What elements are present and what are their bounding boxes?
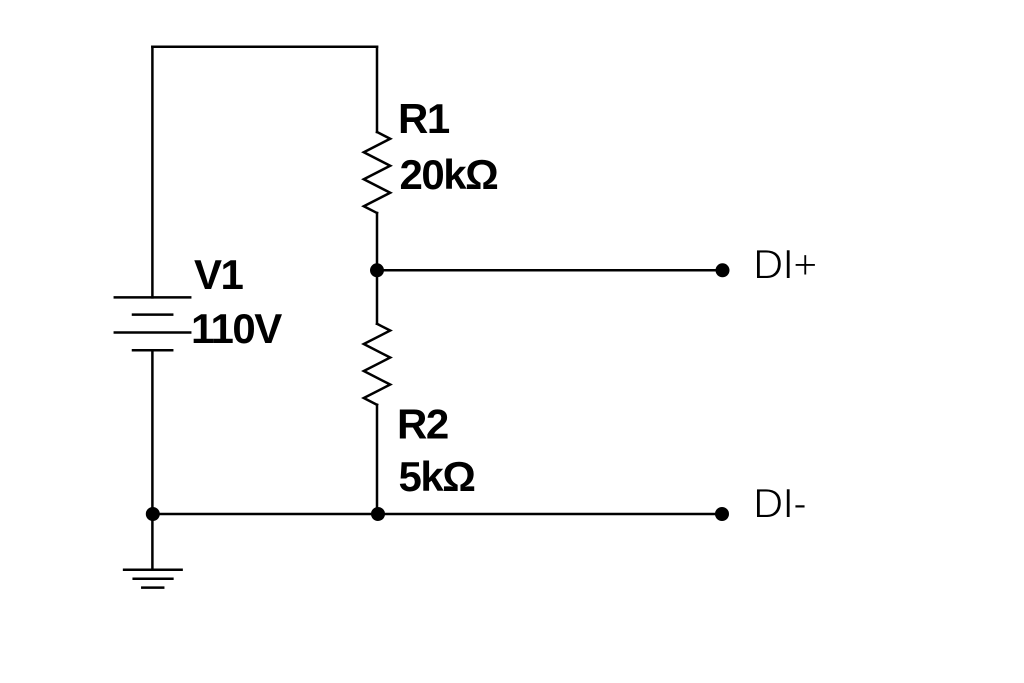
battery V1 lower long plate xyxy=(115,331,190,334)
wire left vertical upper (top wire to battery V1 top plate) xyxy=(151,47,154,298)
resistor R1 zigzag xyxy=(364,132,390,213)
junction bottom left xyxy=(146,507,160,521)
wire left vertical lower (battery V1 bottom plate to bottom wire) xyxy=(151,350,154,514)
svg-text:DI+: DI+ xyxy=(753,241,817,288)
junction bottom middle xyxy=(371,507,385,521)
wire ground stem xyxy=(151,514,154,570)
svg-text:110V: 110V xyxy=(191,305,282,352)
wire right vertical upper (top wire to R1) xyxy=(376,47,379,132)
svg-text:DI-: DI- xyxy=(753,480,806,527)
svg-text:R2: R2 xyxy=(397,401,448,448)
wire middle vertical (R1 bottom through node A to R2 top) xyxy=(376,213,379,324)
wire bottom horizontal xyxy=(152,513,722,516)
svg-text:V1: V1 xyxy=(194,251,244,298)
battery V1 upper short plate xyxy=(133,313,172,316)
wire node A to DI+ terminal xyxy=(377,269,723,272)
ground bar 2 xyxy=(134,577,173,580)
battery V1 top long plate xyxy=(115,296,190,299)
ground bar 3 xyxy=(142,586,163,589)
battery V1 bottom short plate xyxy=(133,349,172,352)
svg-text:5kΩ: 5kΩ xyxy=(399,453,475,500)
terminal dot DI+ xyxy=(716,263,730,277)
resistor R2 zigzag xyxy=(364,324,390,405)
terminal dot DI- xyxy=(715,507,729,521)
svg-text:R1: R1 xyxy=(398,95,450,142)
svg-text:20kΩ: 20kΩ xyxy=(400,151,498,198)
wire top horizontal xyxy=(152,45,377,48)
junction node A (R1/R2 divider tap) xyxy=(370,263,384,277)
wire middle vertical lower (R2 bottom to bottom wire) xyxy=(376,405,379,514)
ground bar 1 xyxy=(124,568,182,571)
